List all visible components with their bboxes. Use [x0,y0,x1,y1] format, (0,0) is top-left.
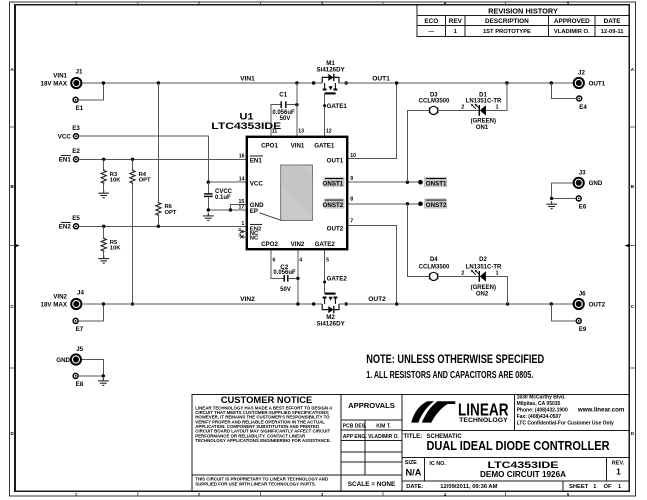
svg-text:Milpitas, CA 95035: Milpitas, CA 95035 [517,401,561,407]
svg-text:DATE: DATE [604,18,622,25]
svg-text:EN2: EN2 [59,224,72,231]
junction C1-pin13/VIN1 [295,81,298,84]
connector J5 [56,346,83,365]
U1 pin name EN1 [250,156,263,164]
customer notice [195,394,333,486]
D1 color label (GREEN) ON1 [471,119,496,132]
connector J4 [41,290,85,310]
resistor R3 10K [101,159,106,190]
wire M2 gate to U1 pin 5 [324,249,326,293]
svg-text:GATE2: GATE2 [327,276,348,283]
svg-text:7: 7 [350,219,353,225]
wire CPO2 pin 6 to C2 [271,249,284,278]
diode D4 CCLM3500 [429,272,437,280]
wire D1 to OUT1 rail [486,83,507,110]
svg-text:4: 4 [299,258,302,264]
wire D3 to D1 [438,109,479,111]
CVCC value label [215,189,233,201]
svg-text:GND: GND [56,357,70,364]
svg-text:ONST2: ONST2 [323,202,344,209]
svg-text:—: — [428,29,434,35]
R6 value label [165,204,177,216]
wire ONST2 to D4 [407,204,429,277]
svg-text:Phone: (408)432-1900: Phone: (408)432-1900 [517,408,568,414]
svg-text:J4: J4 [77,290,84,297]
svg-text:Si4126DY: Si4126DY [316,66,345,73]
net label GATE1 at M1 [323,103,347,110]
terminal E2 (EN1) [59,148,81,164]
junction R4/EN1 [131,158,134,161]
junction pin7/OUT2 [395,302,398,305]
wire VCC from E3 to U1 pin 14 [79,136,247,182]
svg-text:1630 McCarthy Blvd.: 1630 McCarthy Blvd. [517,395,567,401]
svg-text:1: 1 [495,105,498,111]
junction D4 branch/ONST2 [406,202,409,205]
U1 pin 3 NC stub [240,235,247,238]
svg-text:13: 13 [298,129,304,135]
svg-text:VIN2: VIN2 [240,296,255,303]
svg-text:CCLM3500: CCLM3500 [419,99,450,105]
net label GATE2 at M2 [323,276,347,284]
svg-text:E6: E6 [579,204,587,211]
LED D1 LN1351C-TR [471,104,486,116]
svg-text:DUAL IDEAL DIODE CONTROLLER: DUAL IDEAL DIODE CONTROLLER [427,439,610,453]
svg-text:E3: E3 [72,125,80,132]
connector J1 [41,69,83,89]
svg-text:12: 12 [326,129,332,135]
wire ONST1 to D3 [407,110,429,182]
ground below R5 [98,256,109,264]
D4 reference label [419,257,450,271]
wire J5 to ground [82,360,104,376]
svg-text:D2: D2 [479,257,487,263]
svg-text:C1: C1 [279,92,287,99]
svg-text:GND: GND [589,180,603,187]
wire M1 gate to U1 pin 12 [324,93,326,136]
svg-text:1: 1 [616,467,621,477]
capacitor C1 [281,101,286,108]
wire OUT1 rail [339,82,574,84]
svg-text:OUT2: OUT2 [589,301,606,308]
wire EN2 from E5 to U1 pin 1 [79,225,247,227]
svg-text:D1: D1 [479,92,487,98]
svg-text:D4: D4 [430,257,438,263]
wire U1 pin 4 to VIN2 rail [297,249,299,304]
junction J5/E8 ground [102,374,105,377]
svg-text:EN1: EN1 [250,157,263,164]
svg-text:OUT2: OUT2 [327,225,344,232]
junction D2/OUT2 [506,302,509,305]
svg-text:APPROVALS: APPROVALS [348,401,395,410]
svg-text:18V MAX: 18V MAX [41,301,68,308]
svg-text:E5: E5 [72,215,80,222]
wire E7 to VIN2 rail [78,304,103,321]
svg-text:11: 11 [272,129,278,135]
svg-text:NC: NC [250,236,259,242]
date row [406,484,622,490]
svg-text:VIN1: VIN1 [291,143,305,150]
svg-text:1: 1 [241,221,244,227]
svg-text:VIN1: VIN1 [53,73,67,80]
svg-text:(GREEN): (GREEN) [471,119,496,125]
svg-text:N/A: N/A [406,467,422,477]
svg-text:TITLE:: TITLE: [404,434,423,440]
junction R3/EN1 [102,158,105,161]
title block frame [192,394,630,491]
svg-text:SIZE: SIZE [405,460,417,466]
wire EN1 from E2 to U1 pin 16 [79,158,247,160]
svg-text:CCLM3500: CCLM3500 [419,265,450,271]
svg-text:GATE1: GATE1 [314,143,335,150]
ground below R3 [98,190,109,198]
svg-text:REV: REV [449,18,463,25]
title: schematic [404,434,610,453]
junction E1/VIN1 [102,81,105,84]
svg-text:50V: 50V [280,287,291,293]
svg-text:CPO1: CPO1 [261,143,278,150]
junction CVCC/GND wire [207,208,210,211]
wire U1 pin 10 to OUT1 rail [347,83,396,158]
C1 value 0.056uF 50V [272,110,295,122]
svg-text:TECHNOLOGY: TECHNOLOGY [459,417,508,424]
node ONST2 end dot [418,202,423,207]
svg-text:5: 5 [326,258,329,264]
svg-text:18V MAX: 18V MAX [41,80,68,87]
size / ic no / rev row [405,460,625,479]
D2 color label (GREEN) ON2 [471,285,496,298]
U1 pin 2 NC stub [240,230,247,233]
svg-text:DEMO CIRCUIT 1926A: DEMO CIRCUIT 1926A [480,470,566,479]
wire ONST2 from U1 pin 8 [347,203,420,205]
wire VIN1 rail to pin 13 [296,83,298,137]
LED D2 LN1351C-TR [471,270,486,282]
approvals box [343,401,400,488]
wire VIN2 rail [82,303,322,305]
svg-text:CUSTOMER NOTICE: CUSTOMER NOTICE [221,394,313,405]
junction R6/EN2 [157,225,160,228]
note text [366,352,544,381]
wire VIN1 rail [82,82,322,84]
connector J3 [574,169,603,188]
junction D3 branch/ONST1 [406,181,409,184]
svg-text:2: 2 [461,271,464,277]
net label ONST2 [424,198,447,209]
junction pin4/VIN2 [296,302,299,305]
svg-text:D3: D3 [430,92,438,98]
wire OUT2 rail [339,303,574,305]
wire R4 to VIN2 rail [132,184,134,304]
diode D3 CCLM3500 [429,106,437,114]
svg-text:VLADIMIR O.: VLADIMIR O. [368,434,399,440]
transistor M1 Si4126DY [312,74,348,94]
node ONST1 end dot [418,180,423,185]
resistor R5 10K [101,226,106,255]
junction E9/OUT2 [550,302,553,305]
svg-text:VIN2: VIN2 [53,294,67,301]
svg-text:Fax: (408)434-0507: Fax: (408)434-0507 [517,414,562,420]
svg-text:0.1uF: 0.1uF [215,195,231,201]
svg-text:10: 10 [350,153,356,159]
R3 value label [110,172,121,184]
junction pin10/OUT1 [395,81,398,84]
op-amp U1 LTC4353IDE body [247,137,347,249]
svg-text:LTC4353IDE: LTC4353IDE [211,120,281,131]
connector J2 [574,69,606,88]
svg-text:J5: J5 [76,346,83,353]
svg-text:OF: OF [604,484,613,490]
junction R4/VIN2 [131,302,134,305]
svg-text:OPT: OPT [165,210,177,216]
svg-text:SUPPLIED FOR USE WITH LINEAR T: SUPPLIED FOR USE WITH LINEAR TECHNOLOGY … [195,481,316,486]
M1 reference label [316,60,345,74]
svg-text:Si4126DY: Si4126DY [316,320,345,327]
wire C2 to pin 4 riser [288,277,298,279]
U1 reference label [211,110,281,131]
svg-text:14: 14 [239,176,245,182]
svg-text:DESCRIPTION: DESCRIPTION [485,18,529,25]
svg-text:ONST2: ONST2 [426,202,447,209]
svg-text:VCC: VCC [58,134,72,141]
company address [517,395,625,427]
svg-text:ECO: ECO [424,18,438,25]
svg-text:E2: E2 [72,148,80,155]
svg-text:GATE2: GATE2 [315,241,336,248]
svg-text:(GREEN): (GREEN) [471,285,496,291]
svg-text:J1: J1 [76,69,83,76]
svg-text:OUT1: OUT1 [372,76,390,83]
svg-text:1. ALL RESISTORS AND CAPACITO: 1. ALL RESISTORS AND CAPACITORS ARE 0805… [366,370,533,381]
wire ONST1 from U1 pin 9 [347,181,420,183]
terminal E7 [73,318,84,333]
net label ONST1 [424,177,447,188]
wire J3 to ground [552,183,573,199]
svg-text:J2: J2 [578,69,585,76]
svg-text:LTC Confidential-For Customer: LTC Confidential-For Customer Use Only [517,421,614,427]
terminal E4 [577,96,588,111]
svg-text:OUT1: OUT1 [327,157,344,164]
junction C1/pin13 riser [295,103,298,106]
wire E9 to OUT2 rail [551,304,576,321]
svg-text:REVISION HISTORY: REVISION HISTORY [488,6,558,15]
junction pin15/pin17 [229,208,232,211]
svg-text:TECHNOLOGY APPLICATIONS ENGINE: TECHNOLOGY APPLICATIONS ENGINEERING FOR … [195,438,331,443]
svg-text:17: 17 [239,205,245,211]
wire U1 GND/EP pins 15,17 to ground [208,204,247,210]
svg-text:12-09-11: 12-09-11 [601,29,625,35]
D3 reference label [419,92,450,104]
svg-text:1: 1 [495,271,498,277]
transistor M2 Si4126DY [312,294,348,314]
svg-text:OUT2: OUT2 [368,296,386,303]
D2 reference label [466,257,502,271]
svg-text:J6: J6 [579,291,586,298]
wire E6 to ground [552,197,576,199]
terminal E8 [73,373,84,388]
R5 value label [110,240,121,252]
svg-text:ON1: ON1 [476,125,489,131]
Linear Technology logo [411,399,508,424]
svg-text:CPO2: CPO2 [261,241,278,248]
capacitor CVCC 0.1uF [204,182,213,210]
U1 pin name EN2 [250,224,262,232]
C2 value 0.056uF 50V [273,270,296,293]
junction R5/EN2 [102,225,105,228]
terminal E9 [576,318,587,333]
svg-text:10K: 10K [110,178,121,184]
wire C1 to VIN1 pin 13 riser [286,104,297,106]
junction D1/OUT1 [505,81,508,84]
wire E4 to OUT1 rail [551,83,576,99]
svg-text:E8: E8 [76,381,84,388]
svg-text:APPROVED: APPROVED [554,18,590,25]
resistor R4 OPT [130,159,135,184]
junction E7/VIN2 [102,302,105,305]
svg-text:VLADIMIR O.: VLADIMIR O. [554,29,590,35]
U1 pin name ONST2 [323,198,345,209]
svg-text:KIM T.: KIM T. [376,423,391,429]
wire D2 to OUT2 rail [486,276,508,304]
svg-text:6: 6 [273,258,276,264]
svg-text:2: 2 [461,105,464,111]
revision history table [417,5,629,36]
svg-text:E7: E7 [76,326,84,333]
U1 pin name ONST1 [323,177,345,188]
R4 value label [139,172,151,184]
svg-text:www.linear.com: www.linear.com [577,407,625,414]
svg-text:16: 16 [239,154,245,160]
svg-text:EP: EP [250,208,258,215]
svg-text:0.056uF: 0.056uF [272,110,295,116]
ground at J5/E8 [98,378,109,386]
junction E4/OUT1 [550,81,553,84]
svg-text:VIN2: VIN2 [291,241,305,248]
svg-text:ON2: ON2 [476,291,489,297]
connector J6 [574,291,606,310]
svg-text:APP ENG.: APP ENG. [343,434,367,440]
svg-text:OUT1: OUT1 [589,80,606,87]
terminal E1 [73,97,84,112]
junction R6/VIN1 [157,81,160,84]
capacitor C2 [284,275,288,282]
svg-text:2: 2 [238,227,241,232]
wire U1 pin 7 to OUT2 rail [347,226,397,305]
U1 exposed pad [263,165,355,221]
svg-text:8: 8 [350,197,353,203]
U1 EP pointer line [260,213,281,220]
terminal E3 (VCC) [58,125,81,141]
svg-text:EN1: EN1 [59,157,72,164]
terminal E6 [576,196,587,211]
svg-text:ONST1: ONST1 [323,180,344,187]
svg-text:0.056uF: 0.056uF [273,270,296,276]
svg-text:VCC: VCC [250,181,264,188]
junction C2/pin4 riser [296,277,299,280]
svg-text:J3: J3 [579,169,586,176]
svg-text:ONST1: ONST1 [426,180,447,187]
junction VCC/CVCC [207,181,210,184]
svg-text:12/09/2011, 09:36 AM: 12/09/2011, 09:36 AM [440,484,497,490]
svg-text:IC NO.: IC NO. [429,461,446,467]
wire D4 to D2 [438,275,479,277]
svg-text:E9: E9 [579,326,587,333]
svg-text:3: 3 [238,232,241,237]
junction J3/E6 ground [550,197,553,200]
terminal E5 (EN2) [59,215,81,231]
svg-text:GATE1: GATE1 [327,103,348,110]
svg-text:OPT: OPT [139,178,151,184]
ground below CVCC [203,213,214,221]
svg-text:E4: E4 [579,104,587,111]
resistor R6 OPT [156,83,161,226]
svg-text:NOTE: UNLESS OTHERWISE SPECIFI: NOTE: UNLESS OTHERWISE SPECIFIED [366,352,544,366]
wire E8 to ground [78,375,103,377]
svg-text:1ST PROTOTYPE: 1ST PROTOTYPE [483,29,531,35]
svg-text:PCB DES.: PCB DES. [343,423,367,429]
ground at J3/E6 [546,201,557,209]
wire CPO1 pin 11 to C1 [271,105,281,137]
svg-text:E1: E1 [76,105,84,112]
svg-text:REV.: REV. [612,460,625,466]
wire E1 to VIN1 rail [78,83,103,100]
svg-text:VIN1: VIN1 [240,76,255,83]
D1 reference label [466,92,502,104]
svg-text:SHEET: SHEET [569,484,589,490]
svg-text:DATE:: DATE: [406,484,423,490]
M2 reference label [316,314,345,328]
svg-text:9: 9 [350,176,353,182]
svg-text:SCALE = NONE: SCALE = NONE [348,481,396,488]
svg-text:10K: 10K [110,246,121,252]
